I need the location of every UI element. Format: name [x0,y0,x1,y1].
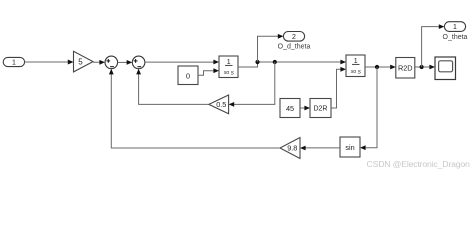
wire sum 2 to integrator 1 [145,60,219,65]
inport 1 [3,57,24,66]
wire node C down to sin [360,67,377,150]
svg-text:45: 45 [286,104,294,113]
svg-text:O_d_theta: O_d_theta [278,44,311,51]
gain 9.8 [280,138,300,159]
svg-text:1: 1 [12,60,16,67]
wire R2D to scope [415,65,435,70]
junction node A [255,60,259,64]
svg-text:O_theta: O_theta [443,34,468,41]
outport 1 [444,22,465,32]
gain 5 [74,51,94,72]
wire gain 9.8 to sum 1 bottom [109,69,280,148]
integrator U2 (1/s with x0) [346,55,365,77]
wire 45 to D2R [300,106,310,111]
wire D2R to integrator 2 x0 input [331,67,346,108]
block sin [340,137,360,157]
wire node A up to outport 2 [258,34,284,62]
sum 2 [132,56,145,69]
integrator U1 (1/s with x0) [219,56,238,78]
sum 1 [105,56,118,69]
wire constant 0 to integrator 1 x0 input [198,68,219,75]
wire gain 0.5 to sum 2 bottom [136,69,209,105]
svg-text:1: 1 [453,24,457,31]
svg-text:0.5: 0.5 [216,100,226,109]
wire integrator 1 output jog up [238,62,258,67]
gain 0.5 [209,95,229,114]
constant 45 [280,99,300,118]
svg-text:xo: xo [350,69,357,75]
svg-text:R2D: R2D [398,63,413,72]
svg-text:2: 2 [292,34,296,41]
block D2R [310,99,331,118]
svg-text:1: 1 [227,59,231,66]
wire inport to gain 5 [25,60,74,65]
svg-text:1: 1 [354,58,358,65]
constant 0 [178,66,198,85]
wire node B down to gain 0.5 [229,62,275,107]
svg-text:xo: xo [223,70,230,76]
junction node B [273,60,277,64]
wire sum 1 to sum 2 [118,60,133,65]
wire sin to gain 9.8 [300,146,340,151]
wire integrator 2 to R2D [365,65,396,70]
wire node D up to outport 1 [422,24,445,67]
svg-text:5: 5 [78,57,83,66]
junction node D [420,65,424,69]
svg-text:D2R: D2R [313,106,327,113]
wire gain 5 to sum 1 [93,60,105,65]
svg-text:sin: sin [345,143,354,152]
scope block [435,57,456,80]
svg-text:0: 0 [186,71,190,80]
svg-text:CSDN @Electronic_Dragon: CSDN @Electronic_Dragon [367,159,471,169]
svg-text:9.8: 9.8 [287,144,297,153]
block R2D [396,58,415,79]
main wire to integrator 2 [258,60,347,65]
junction node C [375,65,379,69]
outport 2 [283,32,304,42]
